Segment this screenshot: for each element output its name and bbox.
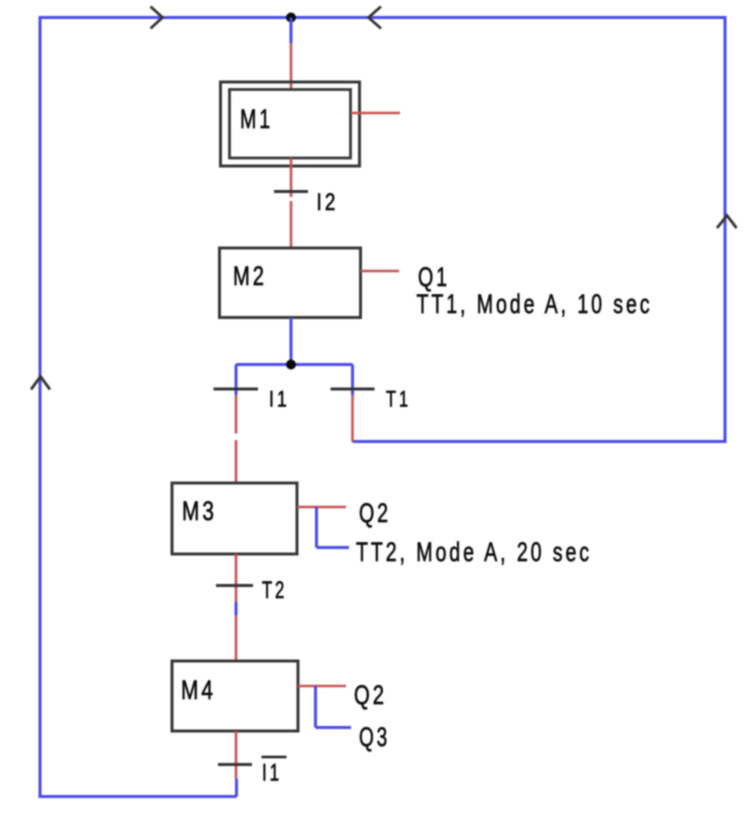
svg-text:I1: I1 [262,760,282,787]
transition T2 [216,584,253,587]
step M1 outer (initial step) [221,82,360,166]
node junction top [286,13,296,23]
svg-text:M1: M1 [240,104,273,134]
svg-text:I1: I1 [269,387,290,412]
svg-text:M2: M2 [233,261,267,291]
arrow right on top bus [151,7,163,29]
wire top horizontal bus [40,16,725,19]
svg-text:Q3: Q3 [359,722,390,752]
wire red I2 to M2 [290,201,293,248]
wire blue left branch drop [235,365,238,396]
wire red drop into M1 [290,43,293,90]
wire blue drop from top node [290,18,293,44]
wire blue right branch drop [351,365,354,396]
wire left vertical return [39,16,42,797]
transition T1 [331,388,375,391]
svg-text:Q1: Q1 [418,262,450,292]
svg-text:T1: T1 [386,387,411,412]
wire blue elbow vertical M4 [314,686,317,728]
svg-text:TT2, Mode A, 20 sec: TT2, Mode A, 20 sec [356,537,592,567]
step M1 inner [230,90,351,159]
wire red I1 down segment b [235,440,238,483]
wire blue M2 down to branch node [290,318,293,365]
wire blue elbow horizontal M4 [316,726,352,729]
svg-text:M3: M3 [182,496,217,526]
step M4 [172,661,298,731]
svg-text:Q2: Q2 [354,680,387,710]
wire M1 action stub [351,112,400,115]
wire M3 action stub [297,506,346,509]
step M2 [220,248,361,318]
wire blue drop to bottom return [235,779,238,797]
wire red T2 to M4 [235,615,238,661]
wire red M1 to I2 [290,158,293,197]
node junction branch [286,360,296,370]
svg-text:I2: I2 [317,189,339,216]
svg-text:Q2: Q2 [359,498,391,528]
wire red M4 to NOT I1 [235,731,238,779]
wire M4 action stub [298,685,346,688]
arrow up on right return [717,216,737,229]
wire M2 action stub [361,270,400,273]
svg-text:T2: T2 [262,577,287,604]
transition I2 [274,190,308,193]
step M3 [172,483,297,554]
transition I1 [214,388,259,391]
wire right vertical return [724,16,727,442]
wire feedback horizontal from T1 branch [353,440,727,443]
wire blue elbow horizontal M3 [317,546,350,549]
wire blue token segment below T2 [235,602,238,615]
arrow up on left return [31,377,50,390]
svg-text:M4: M4 [181,675,216,705]
wire blue branch horizontal [236,363,353,366]
wire blue elbow vertical M3 [315,507,318,548]
wire red T1 down to feedback [351,395,354,442]
transition NOT I1 [218,763,252,766]
svg-text:TT1, Mode A, 10 sec: TT1, Mode A, 10 sec [417,289,653,319]
wire red I1 down segment a [235,395,238,434]
wire red M3 to T2 [235,554,238,602]
wire bottom horizontal return [39,795,237,798]
arrow left on top bus [369,7,382,29]
label NOT I1 overline [262,756,287,759]
